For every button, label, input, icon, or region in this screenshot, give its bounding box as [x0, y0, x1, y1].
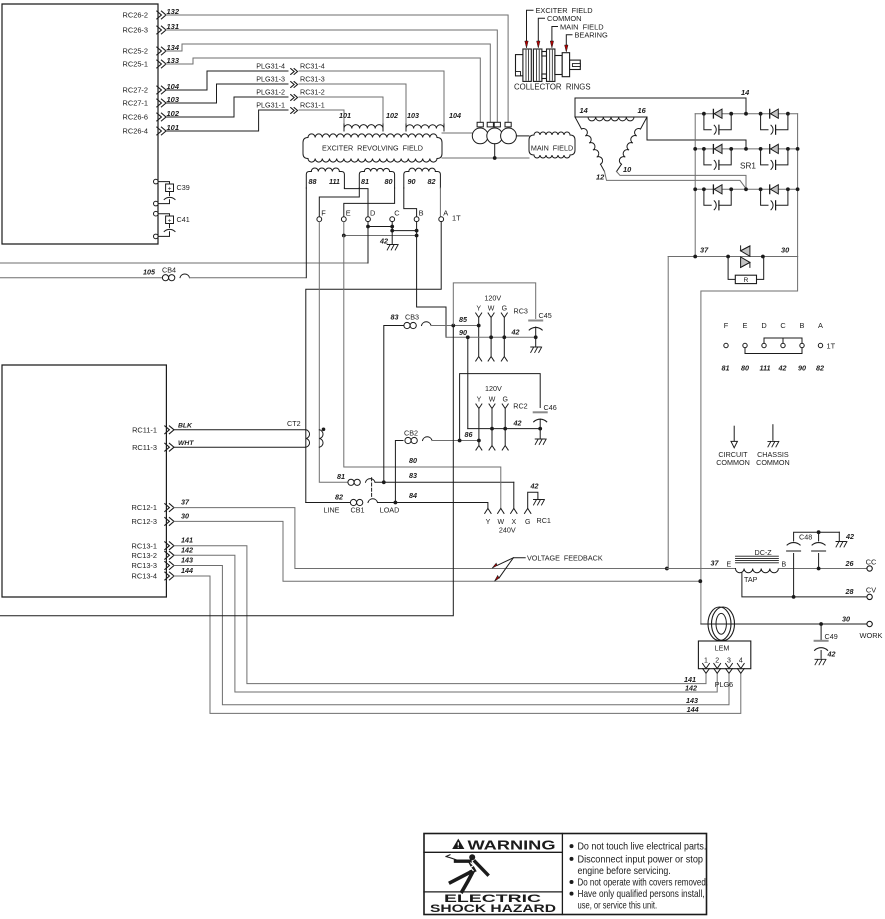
svg-text:101: 101 [339, 111, 351, 120]
svg-text:Do not operate with covers rem: Do not operate with covers removed. [578, 877, 709, 888]
svg-text:RC2: RC2 [513, 402, 527, 411]
svg-text:E: E [346, 209, 351, 218]
wire 81 from terminal F through CT2 to CB1 [319, 222, 348, 483]
svg-text:28: 28 [845, 587, 854, 596]
lead 88 down to CB4 wire [305, 188, 307, 278]
wire 141 [174, 546, 706, 684]
svg-text:W: W [488, 306, 495, 313]
wire 80 from terminal E to RC1 [344, 236, 501, 509]
wire 90 line RC3 [446, 336, 536, 338]
svg-text:LINE: LINE [324, 505, 340, 514]
connector RC27-1 [123, 99, 166, 108]
choke tap wire 28 to CV [742, 573, 867, 597]
svg-text:RC12-3: RC12-3 [132, 517, 157, 526]
svg-text:143: 143 [181, 556, 193, 565]
wire 103 to PLG31-3 [166, 84, 288, 103]
junction 84 to CB2 riser [394, 501, 398, 505]
svg-text:CB4: CB4 [162, 266, 176, 275]
svg-text:Y: Y [486, 519, 491, 526]
capacitor C39 [154, 179, 159, 184]
wire ring2 to bottom rail [494, 144, 496, 158]
wire 133 [166, 58, 480, 123]
svg-text:90: 90 [408, 177, 416, 186]
wire 84 from CB1 [378, 503, 488, 509]
svg-text:CB3: CB3 [405, 313, 419, 322]
capacitor C48 pair [793, 554, 795, 597]
chassis common symbol [772, 425, 774, 441]
wire 10 to SR1 row3 [617, 172, 747, 190]
wire RC31-3 to coil lead 103 [299, 84, 406, 124]
PC board box lower-left [2, 365, 166, 597]
svg-text:C: C [394, 209, 400, 218]
svg-text:42: 42 [845, 532, 854, 541]
svg-text:102: 102 [386, 111, 398, 120]
svg-text:42: 42 [778, 364, 787, 373]
ground 42 at terminal C [391, 231, 393, 244]
svg-text:1T: 1T [452, 214, 461, 223]
svg-text:TAP: TAP [744, 575, 758, 584]
collector rings graphic [516, 55, 524, 76]
svg-text:104: 104 [167, 82, 180, 91]
terminal CV [867, 594, 872, 599]
svg-text:B: B [419, 209, 424, 218]
svg-text:Do not touch live electrical p: Do not touch live electrical parts. [578, 842, 707, 853]
ground 42 at C48 [838, 532, 840, 540]
svg-text:RC11-3: RC11-3 [132, 443, 157, 452]
svg-text:SR1: SR1 [740, 162, 756, 171]
wire 16 to SR1 row2 [647, 117, 746, 149]
junction right of suppressor [761, 255, 765, 259]
wire WHT RC11-3 [174, 446, 306, 448]
svg-text:RC27-2: RC27-2 [123, 86, 148, 95]
connector RC26-4 [123, 127, 166, 136]
svg-text:RC3: RC3 [514, 307, 528, 316]
wire E-B jumper [343, 222, 345, 236]
wire D-C jumper [368, 222, 392, 227]
wire RC31-4 to coil lead 104 [299, 71, 444, 124]
svg-text:LOAD: LOAD [380, 505, 400, 514]
svg-text:14: 14 [580, 106, 588, 115]
LEM box [698, 641, 750, 669]
terminal WORK [867, 621, 872, 626]
svg-text:COMMON: COMMON [716, 458, 750, 467]
svg-text:DC-Z: DC-Z [755, 548, 773, 557]
svg-text:81: 81 [337, 472, 345, 481]
winding section 88-111 [306, 172, 311, 189]
svg-text:85: 85 [459, 315, 468, 324]
wire 26 to CC [778, 568, 866, 570]
svg-text:PLG31-3: PLG31-3 [256, 74, 285, 83]
wire ring3 to main field [516, 135, 529, 137]
svg-text:C48: C48 [799, 533, 812, 542]
terminal D stem to wire 111 [367, 227, 369, 264]
connector RC13-2 [132, 551, 174, 560]
svg-text:144: 144 [687, 705, 699, 714]
lead 82 to terminal A [439, 188, 441, 217]
svg-text:1T: 1T [827, 342, 836, 351]
svg-text:VOLTAGE FEEDBACK: VOLTAGE FEEDBACK [527, 554, 603, 563]
svg-text:Y: Y [476, 306, 481, 313]
wire 85 [431, 325, 479, 327]
junction tap / C48 [792, 595, 796, 599]
svg-text:CB1: CB1 [351, 505, 365, 514]
svg-text:PLG6: PLG6 [715, 680, 733, 689]
connector RC12-1 [132, 503, 174, 512]
riser 83 to CB3 [384, 326, 403, 483]
SR1 diode D1 [712, 109, 714, 118]
svg-text:111: 111 [329, 177, 340, 186]
svg-text:D: D [370, 209, 375, 218]
svg-text:RC1: RC1 [537, 516, 551, 525]
wire 144 [174, 576, 741, 713]
svg-text:42: 42 [827, 650, 836, 659]
jumper E-B [745, 348, 802, 354]
svg-text:103: 103 [407, 111, 419, 120]
svg-text:RC31-3: RC31-3 [300, 74, 325, 83]
connector RC27-2 [123, 86, 166, 95]
lead 111 to terminal D [344, 188, 368, 217]
svg-text:120V: 120V [484, 294, 501, 303]
capacitor C49 [820, 624, 822, 641]
svg-text:81: 81 [722, 364, 730, 373]
svg-text:use, or service this unit.: use, or service this unit. [578, 900, 658, 911]
winding section 81-80 [359, 172, 364, 189]
svg-text:144: 144 [181, 566, 193, 575]
svg-text:WORK: WORK [860, 631, 883, 640]
svg-text:CB2: CB2 [404, 429, 418, 438]
svg-text:RC26-2: RC26-2 [123, 11, 148, 20]
svg-text:C46: C46 [544, 403, 557, 412]
svg-text:CC: CC [866, 558, 877, 567]
SR1 diode D4 [769, 145, 771, 154]
receptacle RC1 [485, 508, 491, 513]
CB1 tie bar [371, 478, 373, 498]
connector RC11-1 [132, 425, 174, 434]
junction 85 / RC3 loop [451, 324, 455, 328]
warning panel [424, 834, 707, 915]
svg-text:A: A [443, 209, 448, 218]
main field winding [529, 135, 534, 155]
svg-text:141: 141 [181, 536, 193, 545]
circuit breaker CB4 [0, 277, 163, 279]
svg-text:RC31-1: RC31-1 [300, 100, 325, 109]
svg-text:E: E [743, 321, 748, 330]
svg-text:80: 80 [741, 364, 749, 373]
svg-text:LEM: LEM [715, 644, 730, 653]
svg-text:142: 142 [685, 684, 697, 693]
SR1 row 2 rail [695, 148, 797, 150]
svg-text:131: 131 [167, 22, 180, 31]
svg-text:C: C [780, 321, 786, 330]
wire 132 [166, 15, 508, 123]
wire C-B jumper [392, 227, 416, 231]
connector PLG31-1/RC31-1 [256, 100, 325, 113]
ground 42 at C46 [539, 429, 541, 438]
wire 83 from CB1 [375, 481, 514, 483]
svg-text:142: 142 [181, 545, 193, 554]
svg-text:101: 101 [167, 123, 180, 132]
bottom rail field to main field [442, 157, 529, 159]
svg-text:BEARING: BEARING [575, 31, 609, 40]
surge suppressor back-to-back diodes [741, 246, 750, 256]
resistor R [728, 257, 735, 280]
warning triangle icon [452, 839, 464, 849]
svg-text:4: 4 [739, 658, 743, 665]
svg-text:WARNING: WARNING [468, 839, 556, 853]
connector RC11-3 [132, 443, 174, 452]
wire 37 from bridge to dc-z [667, 257, 669, 569]
svg-text:D: D [761, 321, 766, 330]
warning text bullets [570, 844, 574, 848]
wire 102 to PLG31-2 [166, 97, 288, 117]
RC2 coupling loop to C46 [460, 374, 541, 441]
svg-text:W: W [489, 397, 496, 404]
svg-text:26: 26 [845, 559, 855, 568]
wire 30 work lead [701, 623, 867, 625]
svg-text:engine before servicing.: engine before servicing. [578, 866, 671, 877]
PC board box upper-left [2, 4, 158, 244]
svg-text:16: 16 [638, 106, 647, 115]
SR1 diode D2 [769, 109, 771, 118]
svg-text:RC13-2: RC13-2 [132, 551, 157, 560]
connector RC13-3 [132, 561, 174, 570]
svg-text:37: 37 [711, 559, 720, 568]
junction left of suppressor [726, 255, 730, 259]
svg-text:Y: Y [477, 397, 482, 404]
wire 134 [166, 44, 490, 123]
wire 86 [432, 440, 479, 442]
svg-text:111: 111 [760, 364, 771, 373]
connector RC26-3 [123, 26, 166, 35]
svg-text:COLLECTOR RINGS: COLLECTOR RINGS [514, 83, 591, 92]
SR1 diode D6 [769, 185, 771, 194]
svg-text:RC26-3: RC26-3 [123, 26, 148, 35]
svg-text:12: 12 [596, 173, 605, 182]
wire 83 down to RC1 X [513, 482, 515, 508]
connector RC26-2 [123, 11, 166, 20]
exciter field section coil 103-104 [406, 125, 444, 129]
SR1 row 1 rail [695, 113, 797, 115]
svg-text:RC25-1: RC25-1 [123, 60, 148, 69]
svg-text:120V: 120V [485, 384, 502, 393]
svg-text:RC13-4: RC13-4 [132, 572, 157, 581]
connector RC26-6 [123, 113, 166, 122]
SR1 right bus [797, 114, 799, 257]
svg-text:PLG31-4: PLG31-4 [256, 61, 285, 70]
svg-text:80: 80 [385, 177, 393, 186]
circuit common symbol [733, 426, 735, 441]
svg-text:88: 88 [309, 177, 317, 186]
LEM toroid [708, 607, 731, 641]
svg-text:PLG31-1: PLG31-1 [256, 100, 285, 109]
svg-text:RC26-4: RC26-4 [123, 127, 148, 136]
wire 142 [174, 555, 717, 692]
wire 90 down from RC3 line to RC2 42 line [467, 337, 469, 428]
svg-text:R: R [743, 277, 748, 284]
svg-text:30: 30 [842, 615, 850, 624]
svg-text:RC13-3: RC13-3 [132, 561, 157, 570]
svg-text:30: 30 [181, 511, 189, 520]
SR1 row 3 snubber capacitors [704, 189, 711, 205]
wire 105 to lead 88 [190, 277, 306, 279]
junction C49 [819, 622, 823, 626]
svg-text:134: 134 [167, 43, 180, 52]
lead 81 to terminal F [319, 188, 359, 217]
svg-text:RC27-1: RC27-1 [123, 99, 148, 108]
terminal B stem [416, 222, 418, 236]
wire 143 [174, 566, 729, 705]
svg-text:3: 3 [727, 658, 731, 665]
svg-text:82: 82 [428, 177, 436, 186]
svg-text:102: 102 [167, 109, 180, 118]
capacitor C46 [534, 411, 547, 413]
SR1 diode D5 [712, 185, 714, 194]
svg-text:103: 103 [167, 95, 180, 104]
generator armature delta winding [574, 98, 576, 117]
svg-text:BLK: BLK [178, 423, 193, 430]
exciter revolving field winding [303, 138, 308, 159]
svg-text:42: 42 [530, 482, 539, 491]
svg-text:PLG31-2: PLG31-2 [256, 87, 285, 96]
svg-text:105: 105 [143, 268, 156, 277]
svg-text:G: G [502, 306, 507, 313]
svg-text:CV: CV [866, 586, 876, 595]
wire field to brush ring 1 [442, 132, 473, 134]
connector PLG31-4/RC31-4 [256, 61, 325, 74]
junction 83 to CB3 riser [382, 480, 386, 484]
svg-text:42: 42 [513, 419, 522, 428]
svg-text:82: 82 [335, 493, 343, 502]
connector RC12-3 [132, 517, 174, 526]
svg-text:37: 37 [181, 498, 190, 507]
svg-text:G: G [502, 397, 507, 404]
svg-text:42: 42 [511, 328, 520, 337]
svg-text:86: 86 [465, 430, 474, 439]
svg-text:84: 84 [409, 491, 417, 500]
terminal C stem [391, 222, 393, 231]
svg-text:A: A [818, 321, 823, 330]
svg-text:2: 2 [715, 658, 719, 665]
connector RC13-1 [132, 541, 174, 550]
wire 82 from terminal A to CB1 line [306, 222, 441, 503]
svg-text:83: 83 [391, 313, 399, 322]
svg-text:81: 81 [361, 177, 369, 186]
svg-text:RC25-2: RC25-2 [123, 47, 148, 56]
svg-text:1: 1 [704, 658, 708, 665]
svg-text:C45: C45 [539, 311, 552, 320]
wire 101 to PLG31-1 [166, 110, 288, 131]
junction 37 at dc-z [665, 567, 669, 571]
junction C48 right [817, 567, 821, 571]
wire 37 node row [668, 256, 728, 258]
svg-text:RC13-1: RC13-1 [132, 541, 157, 550]
svg-text:82: 82 [816, 364, 824, 373]
svg-text:B: B [800, 321, 805, 330]
svg-text:B: B [782, 562, 787, 569]
SR1 row 2 snubber capacitors [704, 149, 711, 165]
svg-text:E: E [727, 562, 732, 569]
capacitor C41 [154, 211, 159, 216]
connector PLG31-2/RC31-2 [256, 87, 325, 100]
wire 37 voltage feedback [174, 508, 667, 569]
wire 30 from bridge down to work lead [701, 257, 798, 625]
connector PLG6 pins [703, 664, 710, 674]
ground 42 at C49 [820, 651, 822, 659]
junction under ring 2 [493, 156, 497, 160]
svg-text:37: 37 [700, 246, 709, 255]
svg-text:Disconnect input power or stop: Disconnect input power or stop [578, 854, 704, 865]
SR1 row 3 rail [695, 188, 797, 190]
svg-text:10: 10 [623, 165, 632, 174]
svg-text:240V: 240V [499, 526, 516, 535]
junction 37 [693, 255, 697, 259]
wire 90 from terminal B to RC3 [417, 236, 446, 338]
lead 80 to terminal E [344, 188, 395, 217]
capacitor C45 [529, 320, 542, 322]
wire 131 [166, 30, 497, 123]
svg-text:104: 104 [449, 111, 461, 120]
svg-text:42: 42 [379, 237, 388, 246]
long bus wire to RC3 loop [0, 326, 453, 616]
svg-text:RC11-1: RC11-1 [132, 425, 157, 434]
svg-text:RC31-4: RC31-4 [300, 61, 325, 70]
svg-text:C39: C39 [177, 183, 190, 192]
wire 111 from board to terminal D [0, 262, 368, 264]
svg-text:90: 90 [798, 364, 806, 373]
svg-text:CT2: CT2 [287, 419, 301, 428]
connector PLG31-3/RC31-3 [256, 74, 325, 87]
jumper D-C-B [764, 338, 783, 343]
svg-text:F: F [321, 209, 326, 218]
wire 30 voltage feedback [174, 521, 700, 581]
svg-text:RC31-2: RC31-2 [300, 87, 325, 96]
connector RC13-4 [132, 572, 174, 581]
electric shock figure [469, 854, 475, 860]
svg-text:C41: C41 [177, 215, 190, 224]
wire BLK RC11-1 [174, 429, 306, 431]
svg-text:G: G [525, 519, 530, 526]
slip ring brushes [472, 128, 488, 144]
wire RC31-1 to coil lead 101 [299, 110, 344, 124]
svg-text:143: 143 [686, 696, 698, 705]
svg-text:83: 83 [409, 471, 417, 480]
svg-text:14: 14 [741, 88, 749, 97]
svg-text:133: 133 [167, 56, 180, 65]
svg-text:COMMON: COMMON [756, 458, 790, 467]
svg-text:80: 80 [409, 456, 417, 465]
lead 90 to terminal B [404, 188, 417, 217]
junction 30 [698, 579, 702, 583]
winding section 90-82 [404, 172, 409, 189]
svg-text:RC12-1: RC12-1 [132, 503, 157, 512]
svg-text:SHOCK HAZARD: SHOCK HAZARD [430, 903, 556, 915]
svg-text:WHT: WHT [178, 440, 194, 447]
wire 14 to SR1 row1 [575, 98, 746, 114]
SR1 left bus [694, 114, 696, 257]
svg-text:C49: C49 [825, 632, 838, 641]
svg-text:MAIN FIELD: MAIN FIELD [531, 144, 573, 153]
RC3 coupling loop to C45 [453, 283, 535, 326]
SR1 diode D3 [712, 145, 714, 154]
riser CB2 from wire 84 [395, 441, 403, 503]
svg-text:132: 132 [167, 7, 180, 16]
ground 42 at RC1 G [528, 492, 538, 508]
svg-text:EXCITER REVOLVING FIELD: EXCITER REVOLVING FIELD [322, 144, 423, 153]
svg-text:RC26-6: RC26-6 [123, 113, 148, 122]
SR1 row 1 snubber capacitors [704, 114, 711, 130]
svg-text:30: 30 [781, 246, 790, 255]
terminal CC [867, 566, 872, 571]
